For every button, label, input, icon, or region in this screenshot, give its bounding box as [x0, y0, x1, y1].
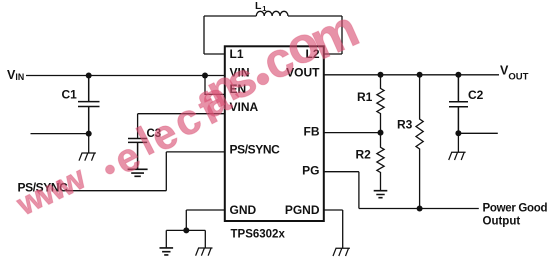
svg-text:PS/SYNC: PS/SYNC — [230, 143, 281, 157]
chassis ground below C2 — [449, 152, 466, 160]
label C2 — [468, 88, 484, 102]
svg-text:FB: FB — [304, 124, 320, 138]
chassis ground below C1 — [79, 153, 96, 161]
wire GND net — [166, 210, 225, 248]
svg-text:R2: R2 — [356, 148, 372, 162]
label R2 — [356, 148, 372, 162]
resistor R2 — [377, 133, 384, 191]
wire C2 to ground — [457, 133, 459, 152]
resistor R3 — [416, 75, 423, 209]
label TPS6302x — [231, 229, 286, 241]
chassis ground at GND — [196, 248, 213, 256]
wire top loop right — [288, 16, 342, 54]
label VIN — [7, 68, 24, 82]
capacitor C1 — [78, 76, 100, 134]
label R1 — [357, 90, 373, 104]
pin label VINA — [230, 100, 259, 114]
wire VINA — [138, 114, 225, 139]
pin label FB — [304, 124, 320, 138]
wire input return rail — [31, 133, 89, 135]
IC U1 TPS6302x box — [225, 46, 324, 221]
label L1 — [255, 0, 266, 13]
wire PG net — [324, 172, 479, 209]
pin label VOUT — [286, 65, 320, 79]
label C1 — [62, 88, 78, 102]
node R1 top — [378, 72, 384, 78]
pin label PGND — [285, 203, 320, 217]
svg-text:Power Good: Power Good — [483, 203, 548, 215]
pin label PG — [302, 164, 319, 178]
wire PS/SYNC net — [66, 152, 225, 191]
node C1 bottom — [86, 131, 92, 137]
node VIN/EN junction — [202, 73, 208, 79]
node C2 bottom — [455, 130, 461, 136]
label PS/SYNC input — [18, 181, 69, 195]
svg-text:L: L — [255, 0, 262, 12]
svg-text:Output: Output — [483, 215, 521, 227]
earth ground below C3 — [128, 169, 148, 176]
svg-text:C2: C2 — [468, 88, 484, 102]
svg-text:R1: R1 — [357, 90, 373, 104]
pin label PS/SYNC — [230, 143, 281, 157]
svg-text:TPS6302x: TPS6302x — [231, 229, 286, 241]
node C1 top — [86, 73, 92, 79]
watermark www.elecfans.com — [10, 0, 367, 223]
resistor R1 — [377, 75, 384, 133]
wire C1 to ground — [88, 134, 90, 153]
node PG/R3 junction — [417, 206, 423, 212]
node GND junction — [183, 227, 189, 233]
svg-text:IN: IN — [15, 72, 24, 82]
label VOUT — [500, 64, 529, 83]
wire FB — [324, 132, 381, 134]
node C2 top — [455, 72, 461, 78]
earth ground at GND — [160, 248, 174, 255]
label Power Good Output — [483, 203, 548, 228]
pin label L2 — [305, 47, 319, 61]
pin label VIN — [230, 65, 250, 79]
label C3 — [147, 128, 162, 140]
svg-text:1: 1 — [262, 4, 266, 13]
wire EN branch — [205, 76, 225, 95]
label R3 — [397, 118, 413, 132]
svg-text:PG: PG — [302, 164, 319, 178]
svg-text:C1: C1 — [62, 88, 78, 102]
node R3 top — [417, 72, 423, 78]
svg-text:OUT: OUT — [508, 72, 528, 83]
capacitor C2 — [449, 75, 468, 134]
wire VIN rail — [26, 75, 225, 77]
earth ground below R2 — [374, 191, 388, 198]
wire C2 return stub — [458, 132, 497, 134]
capacitor C3 — [128, 139, 147, 170]
svg-text:R3: R3 — [397, 118, 413, 132]
svg-text:GND: GND — [230, 203, 257, 217]
inductor L1 — [256, 11, 288, 16]
pin label L1 — [230, 47, 244, 61]
wire VOUT rail — [324, 74, 499, 76]
svg-text:PGND: PGND — [285, 203, 320, 217]
pin label EN — [230, 82, 247, 96]
chassis ground at PGND — [333, 248, 350, 256]
pin label GND — [230, 203, 257, 217]
wire top loop left — [204, 16, 256, 54]
node FB junction — [378, 130, 384, 136]
wire PGND net — [324, 210, 343, 248]
